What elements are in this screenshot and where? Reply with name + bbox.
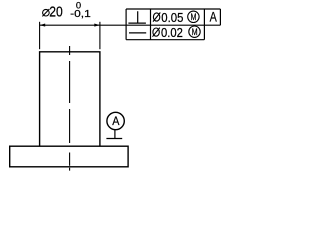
svg-text:M: M (192, 27, 198, 37)
material condition M row 1 (188, 11, 199, 22)
part outline: base plate (10, 146, 128, 167)
datum symbol base bar (106, 138, 122, 140)
datum symbol A circle (107, 112, 124, 129)
straightness symbol (129, 32, 146, 34)
svg-text:A: A (210, 10, 218, 25)
diameter symbol of dimension text (42, 9, 49, 16)
extension line right (99, 22, 101, 49)
part outline: cylinder (40, 52, 100, 146)
centerline (69, 46, 71, 171)
arrowhead right (94, 24, 99, 27)
datum symbol stem (114, 130, 116, 139)
svg-text:0.05: 0.05 (161, 11, 183, 25)
diameter symbol row 2 (153, 28, 160, 37)
svg-text:A: A (112, 114, 120, 128)
arrowhead left (40, 24, 45, 27)
extension line left (39, 22, 41, 49)
svg-text:20: 20 (49, 3, 63, 20)
diameter symbol row 1 (153, 13, 160, 22)
feature control frame borders (126, 9, 220, 40)
material condition M row 2 (189, 26, 200, 37)
svg-text:0.02: 0.02 (161, 26, 183, 40)
perpendicularity symbol (128, 11, 146, 23)
dimension line with leader to frame (40, 24, 127, 26)
svg-text:-0,1: -0,1 (70, 9, 91, 20)
svg-text:M: M (191, 12, 197, 22)
